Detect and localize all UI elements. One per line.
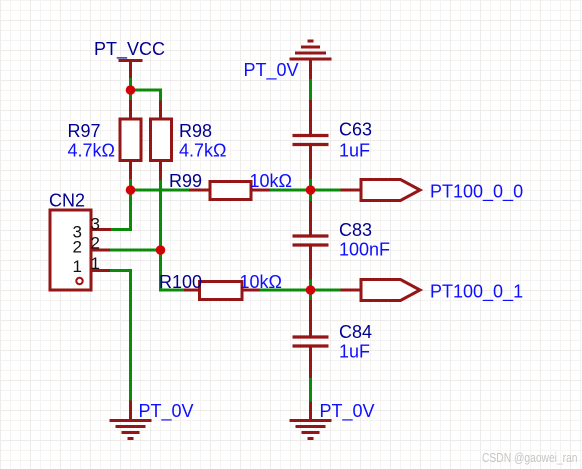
svg-text:R99: R99	[169, 171, 202, 191]
svg-text:PT_0V: PT_0V	[320, 401, 375, 422]
wire C84 to bottom right ground	[309, 378, 312, 402]
svg-text:10kΩ: 10kΩ	[250, 171, 292, 191]
svg-text:CN2: CN2	[49, 191, 85, 211]
svg-text:CSDN @gaowei_ran: CSDN @gaowei_ran	[482, 450, 578, 465]
svg-text:2: 2	[73, 238, 82, 257]
svg-text:PT_VCC: PT_VCC	[94, 39, 165, 60]
junction node B	[126, 185, 136, 195]
wire R99 right to node C	[270, 189, 311, 192]
junction node A	[126, 85, 136, 95]
power port PT_VCC	[119, 61, 143, 79]
wire node A to R98 top	[131, 90, 161, 101]
svg-text:R97: R97	[68, 121, 101, 141]
svg-text:C83: C83	[339, 220, 372, 240]
capacitor C83	[293, 201, 329, 280]
capacitor C84	[293, 300, 329, 379]
wire CN2 pin2 to node E	[110, 249, 161, 252]
junction node D	[306, 285, 316, 295]
ground bottom left	[110, 401, 152, 439]
junction node E	[156, 245, 166, 255]
junction node C	[306, 185, 316, 195]
svg-text:1: 1	[91, 254, 100, 273]
wire top ground to C63	[309, 79, 312, 101]
resistor R97	[120, 100, 141, 180]
svg-text:3: 3	[91, 214, 100, 233]
svg-text:1uF: 1uF	[339, 140, 370, 160]
svg-text:PT100_0_0: PT100_0_0	[430, 181, 523, 202]
port PT100_0_0	[361, 180, 420, 201]
ground top right (flipped)	[290, 41, 332, 80]
wire node D to port wire	[311, 289, 341, 292]
resistor R98	[151, 101, 172, 181]
svg-text:C63: C63	[339, 119, 372, 139]
wire R97 bottom to node B	[129, 179, 132, 190]
wire R100 right to node D	[260, 289, 311, 292]
wire R98 bottom down to node E and to R100	[161, 180, 185, 290]
port PT100_0_1	[361, 280, 420, 301]
resistor R100	[184, 282, 260, 300]
red wire to port PT100_0_1	[341, 289, 362, 292]
svg-text:C84: C84	[339, 322, 372, 342]
svg-text:PT_0V: PT_0V	[139, 401, 194, 422]
svg-text:4.7kΩ: 4.7kΩ	[68, 140, 115, 160]
wire node C to port wire	[311, 189, 341, 192]
svg-text:PT_0V: PT_0V	[244, 60, 299, 81]
svg-text:100nF: 100nF	[339, 239, 390, 259]
wire node B down to CN2 pin3	[111, 190, 131, 230]
svg-text:PT100_0_1: PT100_0_1	[430, 281, 523, 302]
svg-text:R100: R100	[159, 272, 202, 292]
wire C63 to node C	[309, 179, 312, 190]
ground bottom right	[290, 402, 332, 439]
svg-text:1: 1	[73, 257, 82, 276]
resistor R99	[189, 182, 270, 200]
wire node C to C83	[309, 190, 312, 202]
red wire to port PT100_0_0	[341, 189, 362, 192]
wire CN2 pin1 to ground	[110, 271, 131, 402]
svg-text:R98: R98	[179, 121, 212, 141]
svg-text:1uF: 1uF	[339, 342, 370, 362]
wire node B to R99 left	[131, 189, 190, 192]
capacitor C63	[293, 100, 329, 179]
wire node D to C84	[309, 290, 312, 301]
wire node A down	[129, 90, 132, 101]
svg-text:2: 2	[91, 234, 100, 253]
wire C83 to node D	[309, 280, 312, 291]
svg-text:4.7kΩ: 4.7kΩ	[179, 140, 226, 160]
connector CN2	[50, 210, 111, 290]
wire PT_VCC to node A	[129, 78, 132, 91]
